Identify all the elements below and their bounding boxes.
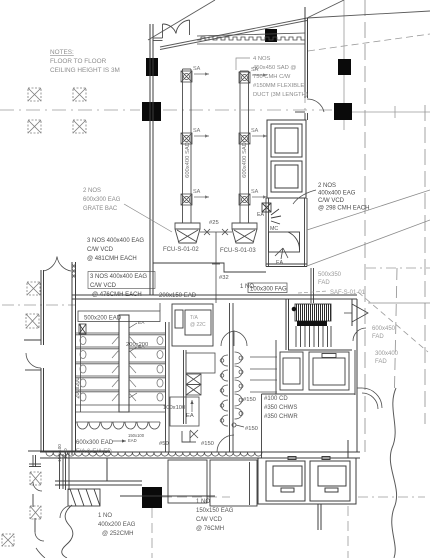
- svg-text:@ 76CMH: @ 76CMH: [196, 526, 224, 532]
- door arc grille: [60, 506, 68, 518]
- roof diagonal long double: [160, 18, 307, 50]
- wall block black top: [265, 29, 277, 42]
- cubicle comb right: [129, 333, 165, 392]
- duct SAD right vertical: [240, 71, 249, 223]
- grid dash horizontal y268: [366, 267, 430, 269]
- toilet right wall x166: [166, 322, 170, 452]
- grid line vertical x365: [364, 0, 366, 452]
- wall x230 vertical: [230, 303, 234, 452]
- MC room labels: [257, 212, 284, 266]
- svg-text:500x200 EAD: 500x200 EAD: [84, 316, 122, 322]
- text 2 NOS grate: [83, 188, 121, 212]
- grid line vertical x425: [424, 105, 426, 424]
- diffuser R2: [239, 133, 250, 144]
- hatched column B3: [30, 472, 41, 485]
- label 100x300 FAG boxed: [248, 283, 287, 293]
- svg-text:NOTES:: NOTES:: [50, 49, 74, 56]
- svg-text:1 NO: 1 NO: [98, 513, 112, 519]
- plant curve bottom-left: [62, 505, 73, 558]
- bottom wall y485: [55, 458, 215, 496]
- stacked X boxes: [186, 374, 201, 395]
- svg-text:T/A: T/A: [190, 315, 198, 321]
- grid line horizontal y110: [0, 110, 430, 112]
- box around 3 NOS 476: [88, 272, 155, 289]
- hatched column B5: [2, 534, 14, 546]
- svg-text:EA: EA: [276, 260, 284, 266]
- svg-text:#150: #150: [243, 397, 256, 403]
- svg-text:FLOOR TO FLOOR: FLOOR TO FLOOR: [50, 58, 107, 65]
- svg-text:#150: #150: [245, 426, 258, 432]
- svg-text:#350 CHWR: #350 CHWR: [264, 414, 298, 420]
- column C4 black: [334, 103, 352, 120]
- EA arrows on duct: [129, 323, 137, 398]
- svg-text:SAF-S-01-01: SAF-S-01-01: [330, 290, 366, 296]
- AHU left box: [280, 352, 303, 390]
- stair room walls: [286, 299, 357, 452]
- svg-text:DUCT (3M LENGTH): DUCT (3M LENGTH): [253, 92, 308, 98]
- hatched column B4: [30, 506, 41, 519]
- svg-text:EA: EA: [138, 320, 145, 326]
- FCU-S-01-02 unit: [175, 223, 200, 243]
- valve 2: [232, 423, 244, 427]
- grid tick x395: [394, 106, 396, 118]
- svg-text:C/W VCD: C/W VCD: [90, 283, 117, 289]
- crenellated top wall band: [197, 33, 305, 44]
- svg-text:@ 22C: @ 22C: [190, 322, 206, 328]
- diffuser L2: [181, 133, 192, 144]
- MC room EA splay: [275, 248, 288, 259]
- WC fixtures right of wall230: [235, 352, 244, 419]
- lift block outer: [258, 458, 356, 504]
- diffuser L2 SA arrow: [193, 128, 209, 138]
- riser symbol 150: [182, 431, 196, 442]
- leader 2 NOS 298: [293, 190, 316, 204]
- dash right of C5: [162, 496, 230, 498]
- svg-text:600x450: 600x450: [372, 326, 396, 332]
- WC fixtures right comb: [157, 337, 163, 402]
- text 3 NOS 476: [90, 274, 147, 298]
- bottom-left walls: [28, 451, 110, 532]
- valve 1: [190, 430, 198, 438]
- hatched column A4: [73, 120, 86, 133]
- svg-text:200x150 EAD: 200x150 EAD: [159, 293, 197, 299]
- pipe labels CHWS: [264, 396, 298, 420]
- svg-text:2 NOS: 2 NOS: [83, 188, 101, 194]
- wall below MC room: [311, 268, 314, 303]
- WC fixtures left of wall230: [220, 355, 228, 426]
- lift car right: [310, 457, 350, 502]
- stair landing bar: [297, 321, 327, 326]
- EA duct vertical center: [119, 315, 129, 412]
- basins row: [76, 422, 160, 429]
- diffuser L1 SA arrow: [193, 66, 209, 76]
- svg-text:EA: EA: [186, 413, 194, 419]
- wall right vertical x306: [305, 7, 308, 98]
- svg-text:EA: EA: [138, 344, 145, 350]
- svg-text:#25: #25: [209, 220, 219, 226]
- svg-text:SA: SA: [193, 128, 201, 134]
- svg-text:SA: SA: [251, 128, 259, 134]
- svg-text:#100 CD: #100 CD: [264, 396, 288, 402]
- stairs fan block: [295, 304, 331, 321]
- label 300x400 FAD: [375, 351, 399, 365]
- stair treads: [296, 326, 331, 347]
- door arcs center toilets: [221, 331, 247, 346]
- hatched column A1: [28, 88, 41, 101]
- wall x183-186: [184, 350, 187, 424]
- duct 500x200 EAD box: [78, 303, 160, 322]
- text 2 NOS 298: [318, 183, 369, 212]
- TA room: [172, 304, 213, 346]
- label 600x450 FAD: [372, 326, 396, 340]
- notes text: [50, 49, 120, 74]
- lift car left: [266, 457, 305, 502]
- arrow EA up: [190, 400, 193, 412]
- curve bottom left corner: [36, 548, 45, 558]
- apex lines right: [307, 0, 430, 18]
- label 500x350 FAD: [318, 272, 342, 286]
- svg-text:SA: SA: [193, 189, 201, 195]
- arrow 600x300: [112, 439, 126, 442]
- label 100x100 EA: [163, 405, 194, 419]
- column C1 black: [146, 58, 158, 76]
- lift pit dashes: [347, 506, 349, 558]
- svg-text:SA: SA: [193, 66, 201, 72]
- diag line pair right: [307, 190, 430, 266]
- TA labels: [190, 315, 206, 328]
- grid dash vertical x397: [395, 268, 398, 388]
- toilet left wall: [72, 262, 76, 455]
- diffuser R1 SA arrow: [251, 67, 267, 77]
- svg-text:GRATE BAC: GRATE BAC: [83, 206, 118, 212]
- svg-text:2 NOS: 2 NOS: [318, 183, 336, 189]
- label 1 NO 150x150: [196, 499, 234, 532]
- wall hatch top left toilet: [72, 264, 76, 278]
- diffuser L3: [181, 194, 192, 205]
- column C5 black: [142, 487, 162, 508]
- svg-text:#32: #32: [219, 275, 229, 281]
- grid line vertical x344: [343, 0, 345, 130]
- svg-text:#150: #150: [201, 441, 214, 447]
- hatched column A3: [28, 120, 41, 133]
- label 1 NO 400x200: [98, 513, 136, 537]
- corridor scallop band: [46, 453, 262, 457]
- shaft upper square: [271, 124, 302, 157]
- svg-text:C/W VCD: C/W VCD: [87, 247, 114, 253]
- svg-text:FAD: FAD: [372, 334, 384, 340]
- grid line horizontal y305 left stub: [2, 304, 75, 306]
- roof diagonal steep: [148, 0, 215, 40]
- svg-text:MC: MC: [270, 226, 278, 232]
- column C3 black: [338, 59, 351, 75]
- door arc corridor: [217, 435, 234, 452]
- shaft lower square: [271, 161, 302, 192]
- svg-text:FAD: FAD: [375, 359, 387, 365]
- svg-text:SA: SA: [251, 189, 259, 195]
- svg-text:500x350: 500x350: [318, 272, 342, 278]
- grille box bottom: [68, 489, 100, 506]
- column C2 black: [142, 102, 161, 121]
- duct channel left wall: [80, 324, 82, 412]
- door arc left lower: [26, 353, 41, 368]
- diffuser R2 SA arrow: [251, 128, 267, 138]
- svg-text:400x200 EAG: 400x200 EAG: [98, 522, 136, 528]
- pipe 32: [212, 257, 220, 303]
- label 600x300 EAD: [76, 440, 114, 446]
- svg-text:400x400 EAG: 400x400 EAG: [318, 191, 356, 197]
- diffuser R3: [239, 194, 250, 205]
- left wall lower x41: [41, 270, 44, 452]
- svg-text:3 NOS 400x400 EAG: 3 NOS 400x400 EAG: [87, 238, 144, 244]
- dashed diagonal lower right: [358, 292, 428, 352]
- duct 150x100 vertical pair: [60, 452, 70, 490]
- svg-text:FCU-S-01-02: FCU-S-01-02: [163, 247, 199, 253]
- svg-text:#350 CHWS: #350 CHWS: [264, 405, 297, 411]
- diffuser L3 SA arrow: [193, 189, 209, 199]
- svg-text:@ 252CMH: @ 252CMH: [102, 531, 133, 537]
- door arc at wall x306 bottom: [307, 99, 324, 112]
- lift wall stub below: [318, 504, 321, 530]
- door arcs left entry: [44, 257, 72, 272]
- stair flag arrow: [344, 304, 368, 322]
- hatched column B2: [26, 314, 39, 328]
- svg-text:600x400 SAD: 600x400 SAD: [185, 142, 191, 178]
- dashed diagonal right: [308, 34, 430, 51]
- door arc left a: [33, 482, 42, 491]
- svg-text:EAD: EAD: [128, 438, 137, 443]
- stair door arc: [353, 328, 366, 341]
- toilet top wall: [72, 295, 357, 299]
- AHU right box: [309, 352, 349, 390]
- svg-text:EA: EA: [257, 212, 265, 218]
- svg-text:200x200: 200x200: [75, 377, 81, 398]
- WC fixtures left comb: [80, 337, 86, 402]
- corridor wall y263: [153, 263, 266, 272]
- svg-text:600x300 EAD: 600x300 EAD: [76, 440, 114, 446]
- wall stub above lifts: [347, 440, 349, 458]
- stair dot: [292, 307, 297, 312]
- dash below C5: [151, 508, 153, 558]
- door double top-left: [153, 20, 190, 41]
- leader 2 NOS: [124, 204, 172, 232]
- wall stubs left: [24, 340, 41, 370]
- hatched column A2: [73, 88, 86, 101]
- diffuser L1: [181, 71, 192, 82]
- svg-text:600x400 SAD: 600x400 SAD: [242, 142, 248, 178]
- leader SAF: [298, 291, 328, 293]
- corridor door right arcs: [357, 388, 382, 409]
- svg-text:4 NOS: 4 NOS: [253, 56, 271, 62]
- hatched column B1: [27, 282, 40, 295]
- svg-text:C/W VCD: C/W VCD: [196, 517, 223, 523]
- cubicle comb left: [76, 333, 119, 392]
- svg-text:@ 298 CMH EACH: @ 298 CMH EACH: [318, 206, 369, 212]
- AHU room walls: [262, 340, 356, 458]
- svg-text:#150MM FLEXIBLE: #150MM FLEXIBLE: [253, 83, 304, 89]
- svg-text:150x150 EAG: 150x150 EAG: [196, 508, 234, 514]
- wall left corridor vertical x151: [150, 24, 153, 295]
- pipe 25 with valves: [200, 229, 232, 257]
- FCU-S-01-03 unit: [232, 223, 257, 243]
- grid line vertical x305 dashed lower part: [304, 48, 306, 110]
- svg-text:FCU-S-01-03: FCU-S-01-03: [220, 248, 256, 254]
- diffuser R1: [239, 72, 250, 83]
- svg-text:@ 481CMH EACH: @ 481CMH EACH: [87, 256, 137, 262]
- EA tiny labels: [138, 320, 145, 350]
- wall line right y303: [368, 302, 430, 304]
- svg-text:450x450 SAD @: 450x450 SAD @: [253, 65, 296, 71]
- tiny label 150x100: [128, 433, 145, 443]
- door arc left b: [35, 532, 44, 541]
- leader 4 NOS: [236, 58, 250, 70]
- svg-text:C/W VCD: C/W VCD: [318, 198, 345, 204]
- duct SAD left vertical: [183, 69, 192, 223]
- svg-text:600x300 EAG: 600x300 EAG: [83, 197, 121, 203]
- boundary wavy line right: [390, 388, 396, 558]
- text 3 NOS 481: [87, 238, 144, 262]
- svg-text:EAD: EAD: [63, 448, 68, 458]
- svg-text:F/A & E/A ED: F/A & E/A ED: [76, 449, 112, 455]
- cubicle end lines: [76, 405, 165, 412]
- svg-text:CEILING HEIGHT IS 3M: CEILING HEIGHT IS 3M: [50, 67, 120, 74]
- svg-text:100x300 FAG: 100x300 FAG: [250, 287, 287, 293]
- fan hatch: [297, 304, 331, 321]
- toilet bottom wall: [40, 452, 360, 458]
- cubicle door swings: [112, 336, 136, 401]
- box room right of comb: [186, 353, 215, 373]
- svg-text:750 CMH C/W: 750 CMH C/W: [253, 74, 291, 80]
- svg-text:#50: #50: [159, 441, 169, 447]
- svg-text:100x100: 100x100: [163, 405, 185, 411]
- hatch grille left wall: [79, 324, 86, 334]
- room below X boxes: [170, 397, 199, 426]
- MC room below shaft: [262, 198, 307, 267]
- svg-text:FAD: FAD: [318, 280, 330, 286]
- svg-text:3 NOS 400x400 EAG: 3 NOS 400x400 EAG: [90, 274, 147, 280]
- bottom rooms walls: [168, 460, 257, 506]
- corridor dash right of lifts: [358, 496, 425, 498]
- shaft block right outer: [267, 120, 306, 198]
- FAD leader lines: [250, 357, 277, 392]
- diffuser R3 SA arrow: [251, 189, 267, 199]
- svg-text:1 NO: 1 NO: [196, 499, 210, 505]
- text 4 NOS SAD: [253, 56, 308, 98]
- svg-text:150x100: 150x100: [57, 444, 62, 462]
